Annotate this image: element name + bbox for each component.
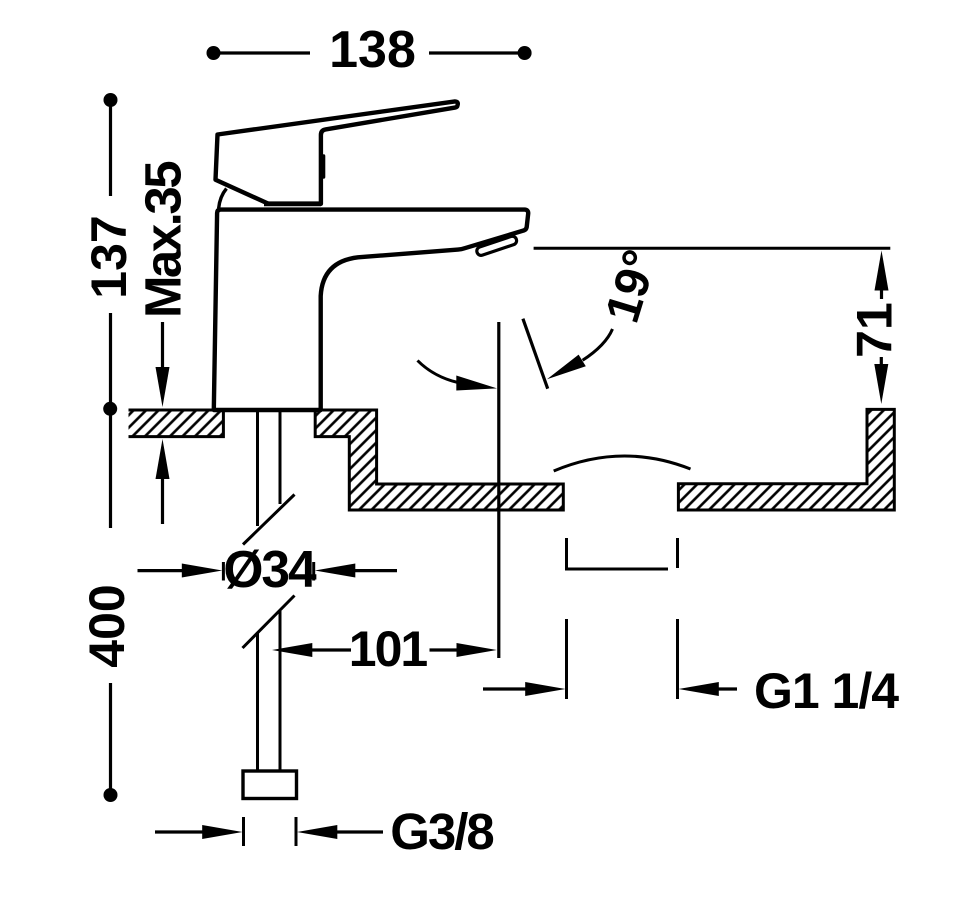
dimension 400 lower line <box>109 683 112 789</box>
dimension 400 bottom dot <box>104 788 118 802</box>
svg-text:G1 1/4: G1 1/4 <box>754 663 899 719</box>
stream centerline <box>497 322 500 658</box>
svg-text:Max.35: Max.35 <box>134 162 191 318</box>
countertop left slab hatched <box>129 410 224 437</box>
dimension 138 left dot <box>207 46 221 60</box>
dimension 137 top dot <box>104 93 118 107</box>
dimension O34 left tick <box>222 562 225 581</box>
dimension G3/8 left arrow <box>155 825 243 839</box>
svg-text:71: 71 <box>847 302 903 358</box>
faucet handle lever <box>216 101 458 203</box>
dimension O34 right arrow <box>315 564 397 578</box>
dimension 71 down arrow <box>874 357 888 404</box>
dimension 137 bottom dot shared with 400 <box>103 402 117 416</box>
faucet cartridge dome arc <box>219 189 227 209</box>
basin overflow arc <box>554 456 691 471</box>
dimension 101 right arrow <box>430 643 497 657</box>
dimension O34 left arrow <box>138 564 223 578</box>
pipe break diagonal lower <box>243 596 295 649</box>
dimension G3/8 left tick <box>242 817 245 846</box>
countertop basin right L-section hatched <box>678 409 894 510</box>
svg-text:137: 137 <box>81 215 137 298</box>
svg-text:101: 101 <box>349 621 428 677</box>
dimension 71 up arrow <box>875 251 889 300</box>
dimension Max.35 down arrow <box>156 322 170 407</box>
dimension 137 upper line <box>109 104 112 196</box>
dimension O34 right tick <box>312 562 315 581</box>
dimension 138 left line <box>214 51 311 54</box>
dimension 137 lower line <box>109 313 112 404</box>
dimension 138 right line <box>429 51 525 54</box>
angle arc arrow left <box>418 361 498 391</box>
pipe break diagonal upper <box>243 495 295 545</box>
svg-text:138: 138 <box>329 21 416 79</box>
supply pipe left line lower segment <box>256 633 259 771</box>
spout height reference line <box>534 247 891 250</box>
angle arc arrow right <box>547 329 613 379</box>
faucet handle bottom thick edge <box>264 201 321 206</box>
supply pipe right line upper segment <box>279 411 282 504</box>
svg-text:400: 400 <box>79 584 135 667</box>
dimension G1 1/4 right arrow <box>679 682 738 696</box>
supply pipe right line lower segment <box>279 611 282 771</box>
supply pipe left line upper segment <box>256 411 259 526</box>
dimension G3/8 right arrow <box>297 825 383 839</box>
dimension 101 left arrow <box>272 643 351 657</box>
dimension G3/8 right tick <box>295 817 298 846</box>
supply pipe end nut G3/8 <box>243 771 297 799</box>
dimension 138 right dot <box>518 46 532 60</box>
drain pipe U outline <box>567 538 678 569</box>
drain dimension left tick <box>565 619 568 699</box>
stream 19 degree line <box>523 319 548 389</box>
dimension G1 1/4 left arrow <box>483 682 566 696</box>
faucet aerator <box>476 235 518 256</box>
faucet body and spout <box>214 210 528 410</box>
dimension 400 upper line <box>109 412 112 528</box>
drain dimension right tick <box>676 619 679 699</box>
faucet handle seam mark <box>322 156 325 177</box>
svg-text:G3/8: G3/8 <box>390 803 493 860</box>
svg-text:Ø34: Ø34 <box>223 540 317 598</box>
dimension Max.35 up arrow <box>156 439 170 524</box>
countertop basin left Z-section hatched <box>315 410 563 510</box>
